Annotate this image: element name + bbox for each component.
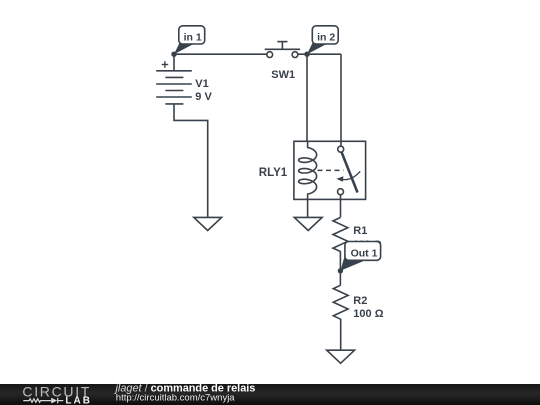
wire (174, 53, 267, 55)
relay blade (342, 152, 358, 192)
node in 2 (304, 52, 309, 57)
svg-text:100 Ω: 100 Ω (353, 308, 383, 320)
svg-text:SW1: SW1 (271, 69, 295, 81)
wire (174, 104, 208, 217)
relay bottom contact (338, 189, 344, 195)
resistor R1 (333, 218, 348, 252)
svg-text:RLY1: RLY1 (259, 167, 288, 179)
battery plus sign (162, 61, 169, 68)
relay RLY1 box (294, 141, 366, 199)
svg-text:LAB: LAB (65, 396, 92, 405)
relay actuation arrow (342, 171, 360, 179)
net flag in 1 box (179, 26, 205, 44)
wire (307, 199, 309, 217)
ground (294, 217, 322, 230)
wire (298, 53, 341, 55)
battery V1 (156, 71, 192, 104)
svg-text:Out 1: Out 1 (351, 248, 378, 260)
node Out 1 (338, 268, 343, 273)
wire (340, 199, 342, 217)
resistor R2 (333, 285, 348, 319)
ground (327, 350, 355, 363)
svg-text:in 1: in 1 (184, 31, 202, 43)
svg-text:R1: R1 (353, 225, 367, 237)
svg-text:in 2: in 2 (317, 31, 335, 43)
net flag in 2 box (312, 26, 338, 44)
relay dashed link (318, 169, 344, 171)
svg-text:V1: V1 (195, 78, 208, 90)
svg-text:R2: R2 (353, 295, 367, 307)
footer bar (0, 384, 540, 405)
wire (340, 141, 342, 146)
net flag Out 1 box (345, 242, 381, 261)
wire (173, 54, 175, 71)
relay top contact (338, 146, 344, 152)
node in 1 (171, 52, 176, 57)
net flag Out 1 tail (340, 257, 369, 271)
wire (306, 54, 308, 141)
wire (340, 54, 342, 141)
net flag in 2 tail (307, 42, 327, 55)
net flag in 1 tail (174, 42, 194, 55)
logo resistor squiggle and diode (23, 398, 63, 404)
wire (340, 195, 342, 200)
svg-text:9 V: 9 V (195, 91, 212, 103)
svg-text:http://circuitlab.com/c7wnyja: http://circuitlab.com/c7wnyja (116, 393, 236, 404)
wire (339, 251, 341, 285)
relay RLY1 coil (299, 141, 317, 199)
switch SW1 (265, 42, 300, 58)
wire (340, 319, 342, 350)
ground (194, 217, 222, 230)
